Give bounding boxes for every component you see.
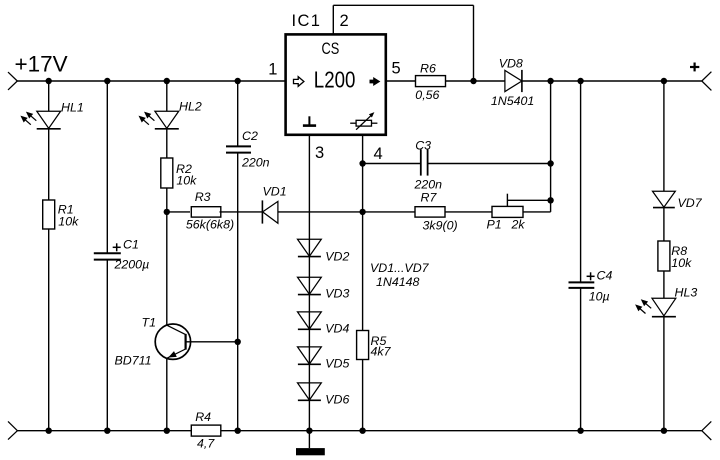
resistor R6 [416, 76, 446, 87]
svg-text:VD1: VD1 [263, 184, 287, 198]
wire C4 to bottom rail [580, 288, 582, 431]
svg-text:VD7: VD7 [678, 196, 703, 210]
output terminal - (bottom right) [702, 421, 712, 430]
resistor R2 [161, 158, 173, 188]
node bottom rail / C4 [577, 428, 583, 434]
op-amp IC1 L200 box [286, 34, 386, 134]
wire top rail left [17, 80, 285, 82]
wire pin5 to R6 [386, 80, 415, 82]
ground [308, 431, 310, 448]
T1 emitter arrow [168, 351, 177, 357]
wire HL2 to R2 [166, 129, 168, 158]
wire HL1 to R1 [48, 129, 50, 200]
svg-text:R6: R6 [420, 61, 436, 75]
svg-text:R7: R7 [421, 191, 438, 205]
pin 2 wire up and over [332, 5, 334, 34]
svg-text:4,7: 4,7 [197, 436, 215, 450]
svg-text:R4: R4 [195, 410, 211, 424]
wire pin3 down [308, 135, 310, 431]
diode VD8 [505, 70, 522, 91]
node T1 base / C2 wire [235, 339, 241, 345]
wire C2 down to bottom rail [237, 153, 239, 431]
pin 1 hollow arrow [294, 77, 304, 87]
resistor R3 [191, 207, 221, 217]
svg-text:0,56: 0,56 [415, 88, 439, 102]
wire C3 to right rail [428, 163, 551, 165]
T1 base bar [185, 334, 187, 350]
svg-text:R3: R3 [195, 190, 211, 204]
node top rail / C4 [577, 78, 583, 84]
wire VD7 to R8 [663, 208, 665, 241]
diode VD7 [653, 191, 676, 207]
T1 collector stroke [167, 325, 186, 334]
node bottom rail / C2 wire [235, 428, 241, 434]
wire pin4 down [362, 135, 364, 331]
svg-text:HL1: HL1 [61, 101, 84, 115]
capacitor C4 [569, 281, 595, 283]
node bottom rail / diode chain [306, 428, 312, 434]
svg-text:L200: L200 [314, 66, 356, 92]
node bottom rail / T1 [164, 428, 170, 434]
resistor R4 [191, 425, 221, 436]
wire T1 emitter to bottom rail [166, 358, 168, 431]
svg-text:10k: 10k [58, 215, 79, 229]
svg-text:+17V: +17V [15, 52, 68, 77]
capacitor C2 [226, 145, 251, 147]
diode VD1 [263, 201, 278, 223]
svg-text:CS: CS [322, 40, 340, 58]
svg-text:220n: 220n [241, 156, 270, 170]
HL2 emission arrows [148, 115, 154, 121]
svg-text:VD5: VD5 [325, 357, 349, 371]
T1 emitter stroke [167, 349, 186, 358]
node C3 / right vert [547, 160, 553, 166]
svg-text:VD6: VD6 [325, 393, 349, 407]
T1 base lead [186, 341, 238, 343]
svg-text:BD711: BD711 [115, 354, 152, 368]
svg-text:VD2: VD2 [325, 250, 349, 264]
LED HL2 [155, 111, 179, 128]
diode VD6 [298, 383, 322, 400]
svg-text:C3: C3 [415, 138, 431, 152]
node bottom rail / HL3 [661, 428, 667, 434]
svg-text:IC1: IC1 [292, 12, 320, 30]
resistor R1 [43, 200, 55, 229]
wire VD7 branch top [663, 81, 665, 191]
svg-text:VD1...VD7: VD1...VD7 [370, 261, 430, 275]
wire R1 to bottom rail [48, 229, 50, 431]
pin 5 filled arrow [370, 77, 381, 86]
diode VD3 [298, 277, 322, 294]
node bottom rail / R1 [46, 428, 52, 434]
svg-text:2: 2 [340, 12, 349, 30]
label C4 plus [587, 275, 595, 277]
svg-text:HL2: HL2 [179, 99, 202, 113]
wire R7 to P1 [445, 211, 492, 213]
node top rail / HL2 [164, 78, 170, 84]
wire bottom rail right [221, 430, 702, 432]
svg-text:10k: 10k [176, 173, 197, 187]
node wiper / right vert [547, 197, 553, 203]
node top rail / C1 [104, 78, 110, 84]
label + output [690, 66, 699, 68]
svg-text:2k: 2k [511, 218, 526, 232]
wire R2 to T1 collector [166, 188, 168, 325]
resistor R7 [415, 207, 445, 217]
svg-text:C4: C4 [597, 269, 613, 283]
wire HL1 branch top [48, 81, 50, 111]
wire HL3 to bottom rail [663, 317, 665, 431]
svg-text:4k7: 4k7 [371, 345, 392, 359]
node top rail / pin2 wire [470, 78, 476, 84]
node pin4 / R7 row [359, 209, 365, 215]
label C1 plus [113, 246, 121, 248]
node top rail / X8 [547, 78, 553, 84]
svg-text:2200µ: 2200µ [114, 257, 150, 271]
svg-text:5: 5 [392, 60, 401, 78]
wire R3 to VD1 [220, 211, 263, 213]
wire VD1 to R7 [278, 211, 415, 213]
node pin4 / C3 row [359, 160, 365, 166]
diode VD4 [298, 312, 322, 329]
svg-text:1N5401: 1N5401 [491, 94, 534, 108]
resistor R5 [357, 331, 369, 360]
capacitor C3 [420, 149, 422, 175]
P1 wiper [506, 194, 508, 207]
diode VD5 [298, 347, 322, 364]
wire C2 branch top [237, 81, 239, 146]
node R3 row / R2 wire [164, 209, 170, 215]
wire VD8 to output [522, 80, 702, 82]
wire VD8 node down to P1 [550, 81, 552, 200]
svg-text:VD8: VD8 [499, 57, 523, 71]
svg-text:4: 4 [374, 145, 383, 163]
node top rail / VD7 [661, 78, 667, 84]
resistor R8 [658, 241, 670, 271]
svg-text:10k: 10k [671, 256, 692, 270]
LED HL3 [652, 298, 676, 316]
potentiometer P1 [492, 206, 523, 217]
input terminal - (bottom left) [8, 421, 17, 430]
node bottom rail / C1 [104, 428, 110, 434]
svg-text:1: 1 [268, 61, 277, 79]
svg-text:C1: C1 [123, 238, 139, 252]
wire R5 to bottom rail [362, 360, 364, 431]
svg-text:3k9(0): 3k9(0) [423, 218, 458, 232]
svg-text:VD4: VD4 [325, 322, 349, 336]
transistor T1 body [155, 324, 190, 359]
wire R2 to R3 [167, 211, 190, 213]
svg-text:P1: P1 [487, 218, 502, 232]
output terminal + (top right) [702, 72, 712, 81]
wire HL2 branch top [166, 81, 168, 111]
input terminal + (top left) [8, 72, 17, 81]
svg-text:C2: C2 [242, 129, 258, 143]
svg-text:1N4148: 1N4148 [376, 275, 420, 289]
svg-text:VD3: VD3 [325, 287, 349, 301]
diode VD2 [298, 239, 322, 256]
svg-text:3: 3 [315, 144, 324, 162]
HL1 emission arrows [30, 115, 36, 121]
wire R8 to HL3 [663, 271, 665, 298]
node top rail / HL1 [46, 78, 52, 84]
wire C1 branch top [106, 81, 108, 253]
node bottom rail / R5 [359, 428, 365, 434]
node top rail / C2 [235, 78, 241, 84]
LED HL1 [37, 111, 61, 128]
wire pin4 to C3 [363, 163, 421, 165]
svg-text:10µ: 10µ [589, 289, 610, 303]
wire bottom rail left [17, 430, 191, 432]
IC internal ground symbol [308, 116, 310, 125]
wire C1 to bottom rail [106, 260, 108, 431]
svg-text:220n: 220n [414, 177, 443, 191]
HL3 emission arrows [645, 303, 651, 309]
wire C4 branch [580, 81, 582, 282]
P1 right lead [523, 211, 551, 213]
wire R6 to VD8 [445, 80, 505, 82]
svg-text:T1: T1 [142, 316, 156, 330]
svg-text:56k(6k8): 56k(6k8) [186, 218, 234, 232]
svg-text:HL3: HL3 [675, 286, 698, 300]
capacitor C1 [94, 252, 121, 254]
IC internal adj resistor [356, 120, 371, 126]
